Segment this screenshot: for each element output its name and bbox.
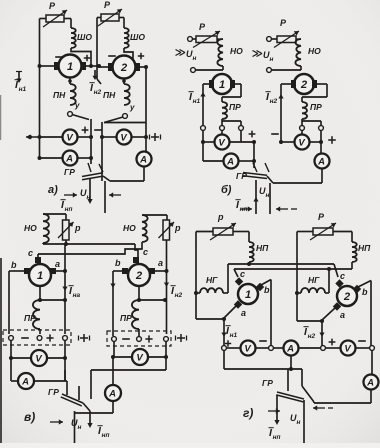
svg-text:ГР: ГР	[262, 378, 273, 388]
svg-text:A: A	[366, 377, 374, 388]
svg-text:ПР: ПР	[310, 102, 322, 112]
svg-text:A: A	[286, 343, 294, 354]
svg-text:Р: Р	[280, 18, 287, 28]
svg-text:а: а	[55, 259, 60, 269]
svg-text:а: а	[158, 258, 163, 268]
svg-text:нп: нп	[65, 206, 73, 213]
svg-text:ГР: ГР	[48, 387, 59, 397]
svg-text:н1: н1	[193, 98, 201, 105]
svg-text:A: A	[21, 376, 29, 387]
svg-text:нп: нп	[102, 432, 110, 439]
svg-text:на: на	[73, 292, 81, 299]
svg-text:Р: Р	[199, 22, 206, 32]
svg-text:1: 1	[219, 79, 225, 91]
svg-text:н1: н1	[230, 332, 238, 339]
svg-text:2: 2	[343, 291, 350, 303]
svg-text:н: н	[78, 424, 82, 431]
svg-text:р: р	[217, 212, 224, 222]
svg-text:A: A	[226, 156, 234, 167]
svg-text:ПР: ПР	[120, 313, 132, 323]
svg-text:ШО: ШО	[130, 32, 145, 42]
svg-text:НО: НО	[24, 223, 37, 233]
svg-text:с: с	[340, 271, 345, 281]
svg-text:Р: Р	[318, 212, 325, 222]
svg-text:а: а	[241, 308, 246, 318]
svg-text:в): в)	[24, 410, 35, 424]
svg-text:б): б)	[221, 184, 232, 196]
svg-text:V: V	[136, 352, 143, 363]
svg-text:V: V	[120, 132, 127, 143]
svg-text:р: р	[174, 223, 181, 233]
svg-text:2: 2	[300, 79, 307, 91]
svg-text:b: b	[11, 260, 17, 270]
svg-text:V: V	[218, 137, 225, 148]
svg-text:A: A	[317, 156, 325, 167]
svg-text:н2: н2	[175, 292, 183, 299]
svg-text:A: A	[65, 153, 73, 164]
svg-text:г): г)	[243, 406, 253, 420]
svg-text:A: A	[108, 388, 116, 399]
svg-text:A: A	[139, 154, 147, 165]
svg-text:НГ: НГ	[206, 275, 218, 285]
svg-text:2: 2	[120, 62, 127, 74]
svg-text:н: н	[297, 419, 301, 426]
svg-text:НГ: НГ	[308, 275, 320, 285]
svg-text:2: 2	[135, 270, 142, 282]
svg-text:b: b	[362, 287, 368, 297]
svg-text:а: а	[340, 310, 345, 320]
svg-text:НП: НП	[256, 243, 269, 253]
svg-text:1: 1	[245, 289, 251, 301]
svg-text:ШО: ШО	[77, 32, 92, 42]
svg-text:b: b	[264, 285, 270, 295]
svg-text:н2: н2	[94, 89, 102, 96]
svg-text:с: с	[240, 269, 245, 279]
svg-text:ПН: ПН	[103, 90, 116, 100]
svg-text:1: 1	[67, 61, 73, 73]
svg-text:V: V	[66, 132, 73, 143]
svg-text:b: b	[115, 258, 121, 268]
svg-text:V: V	[35, 353, 42, 364]
svg-text:нп: нп	[240, 206, 248, 213]
svg-text:V: V	[298, 137, 305, 148]
svg-text:н: н	[266, 192, 270, 199]
svg-text:НО: НО	[308, 46, 321, 56]
svg-text:V: V	[244, 343, 251, 354]
svg-text:ГР: ГР	[64, 167, 75, 177]
svg-text:н2: н2	[270, 98, 278, 105]
svg-text:н: н	[193, 55, 197, 62]
svg-text:нп: нп	[273, 434, 281, 441]
svg-text:НП: НП	[358, 243, 371, 253]
svg-text:НО: НО	[123, 223, 136, 233]
svg-text:ПР: ПР	[24, 313, 36, 323]
svg-text:V: V	[344, 343, 351, 354]
svg-text:р: р	[74, 223, 81, 233]
svg-text:НО: НО	[230, 46, 243, 56]
svg-text:с: с	[28, 248, 33, 258]
svg-text:Р: Р	[104, 0, 111, 10]
svg-text:н1: н1	[19, 86, 27, 93]
svg-text:ПР: ПР	[229, 102, 241, 112]
svg-text:у: у	[129, 103, 135, 112]
svg-text:н: н	[87, 194, 91, 201]
svg-text:у: у	[74, 101, 80, 110]
svg-text:с: с	[143, 247, 148, 257]
svg-text:Р: Р	[49, 1, 56, 11]
svg-text:1: 1	[37, 270, 43, 282]
svg-text:ПН: ПН	[53, 90, 66, 100]
svg-text:а): а)	[48, 184, 58, 196]
svg-text:н2: н2	[308, 333, 316, 340]
svg-text:н: н	[270, 56, 274, 63]
